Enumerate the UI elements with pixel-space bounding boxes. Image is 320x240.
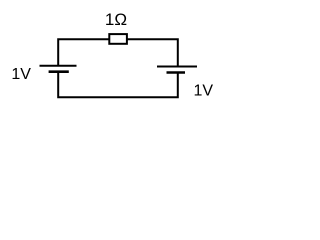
wire: bottom loop from left battery down, across bottom, up to right battery <box>58 72 178 98</box>
wire: resistor to top-right corner down to right battery <box>127 39 178 66</box>
svg-text:1Ω: 1Ω <box>105 10 127 29</box>
value label 1Ω <box>105 10 127 29</box>
svg-text:1V: 1V <box>194 83 214 100</box>
battery (right cell): long positive plate <box>157 66 197 68</box>
resistor (1 ohm) body <box>109 34 127 44</box>
battery (left cell): short negative plate <box>49 70 69 73</box>
value label 1V (left battery) <box>11 66 31 83</box>
battery (left cell): long positive plate <box>40 65 77 67</box>
svg-text:1V: 1V <box>11 66 31 83</box>
value label 1V (right battery) <box>194 83 214 100</box>
wire: top-left corner from left battery up and across to resistor <box>58 39 109 65</box>
battery (right cell): short negative plate <box>167 71 186 74</box>
